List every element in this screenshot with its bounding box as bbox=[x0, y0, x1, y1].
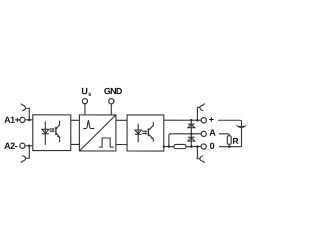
terminal circle 0 bbox=[201, 144, 206, 149]
svg-text:0: 0 bbox=[210, 141, 215, 151]
wire R to 0 rail bbox=[228, 144, 230, 147]
diode D2 triangle bbox=[188, 138, 195, 142]
terminal circle A2 bbox=[20, 143, 25, 148]
U2 square pulse glyph bbox=[99, 138, 114, 147]
node A branch bbox=[168, 145, 171, 148]
wire 0 rail from box3 bbox=[164, 146, 174, 148]
node hook branch 0 bbox=[196, 145, 199, 148]
connector hook A2 bbox=[22, 156, 26, 162]
opto U1 emitter bbox=[56, 133, 60, 142]
opto U1 phototransistor base bar bbox=[55, 127, 57, 135]
connector hook A1 bbox=[22, 105, 26, 111]
opto U3 emitter bbox=[148, 134, 153, 142]
terminal circle A1 bbox=[20, 117, 25, 122]
node diode bottom bbox=[190, 145, 193, 148]
wire A1 to box bbox=[25, 119, 33, 121]
svg-text:s: s bbox=[88, 92, 92, 98]
wire + hook vertical bbox=[197, 107, 199, 120]
U2 diagonal bbox=[79, 115, 116, 151]
input optocoupler box U1 bbox=[33, 115, 71, 151]
opto U1 LED wire bbox=[44, 121, 46, 145]
opto U1 LED triangle bbox=[42, 129, 49, 133]
DC/DC converter box U2 bbox=[79, 115, 116, 151]
wire 0 rail mid bbox=[186, 146, 201, 148]
svg-text:U: U bbox=[81, 86, 88, 96]
wire A2 branch vertical bbox=[25, 146, 29, 159]
opto U3 LED cathode bar bbox=[135, 133, 142, 135]
wire box2 to box3 top bbox=[116, 119, 127, 121]
diode D1 triangle bbox=[188, 124, 195, 127]
output optocoupler box U3 bbox=[127, 115, 164, 151]
node diode top bbox=[190, 119, 193, 122]
node hook branch + bbox=[196, 119, 199, 122]
opto U3 LED triangle bbox=[135, 130, 142, 134]
opto U1 LED cathode bar bbox=[42, 133, 49, 135]
svg-text:A: A bbox=[209, 128, 216, 138]
svg-text:A1+: A1+ bbox=[4, 115, 20, 125]
current wing symbol bbox=[236, 125, 242, 128]
opto U3 LED wire bbox=[137, 124, 139, 143]
wire + rail from box3 bbox=[164, 119, 201, 121]
opto U3 collector bbox=[148, 122, 153, 131]
opto U3 emitter arrowhead bbox=[151, 137, 153, 140]
U2 spike pulse glyph bbox=[83, 120, 94, 128]
svg-text:A2-: A2- bbox=[4, 141, 18, 151]
diode D1 bar bbox=[188, 123, 195, 125]
svg-text:GND: GND bbox=[104, 86, 123, 96]
connector hook 0 bbox=[200, 156, 204, 162]
wire GND drop bbox=[110, 104, 112, 115]
load resistor R bbox=[227, 136, 231, 144]
opto U3 phototransistor base bar bbox=[147, 128, 149, 136]
wire box1 to box2 bottom bbox=[71, 143, 80, 145]
wire + rail right bbox=[218, 120, 241, 146]
shunt resistor bbox=[174, 144, 186, 148]
svg-text:R: R bbox=[232, 136, 238, 146]
wire A branch up bbox=[169, 134, 171, 147]
opto U1 emitter arrowhead bbox=[57, 135, 59, 138]
svg-text:+: + bbox=[209, 115, 214, 125]
terminal circle + bbox=[201, 118, 206, 123]
wire box1 to box2 top bbox=[71, 119, 80, 121]
node box3 0 bbox=[163, 145, 165, 147]
node diode mid bbox=[190, 133, 193, 136]
wire A1 branch vertical bbox=[26, 108, 30, 120]
diode D2 bar bbox=[188, 136, 195, 138]
node R bottom bbox=[228, 145, 231, 148]
terminal circle Us bbox=[82, 99, 87, 104]
opto U1 collector bbox=[56, 121, 60, 130]
opto U1 light arrows bbox=[50, 128, 53, 130]
wire A2 to box bbox=[25, 145, 33, 147]
node A1 branch bbox=[28, 119, 31, 122]
wire 0 rail right bbox=[219, 146, 242, 148]
wire Us drop bbox=[84, 104, 86, 115]
diode chain wire bbox=[190, 120, 192, 146]
opto U3 light arrows bbox=[142, 130, 145, 132]
wire A rail bbox=[170, 133, 201, 135]
terminal circle A bbox=[201, 131, 206, 136]
terminal circle GND bbox=[109, 99, 114, 104]
wire box2 to box3 bottom bbox=[116, 143, 127, 145]
connector hook + bbox=[200, 105, 204, 111]
node A2 branch bbox=[28, 144, 31, 147]
wire A rail right bbox=[219, 134, 229, 136]
wire 0 hook vertical bbox=[197, 147, 199, 159]
